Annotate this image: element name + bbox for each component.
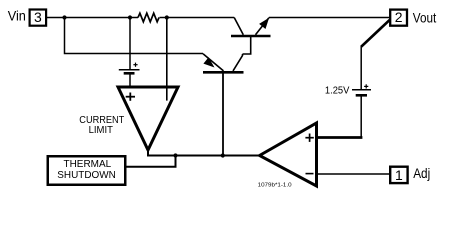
svg-text:SHUTDOWN: SHUTDOWN — [57, 170, 115, 181]
junction node D (thermal shutdown tie) — [173, 153, 177, 157]
wire: current limit output stub — [147, 149, 149, 157]
svg-text:3: 3 — [34, 9, 42, 25]
label CURRENT LIMIT — [79, 115, 124, 136]
wire: Q2 base down to output node bus — [222, 74, 224, 156]
svg-text:1: 1 — [395, 167, 403, 183]
transistor Q2 (PNP driver) — [203, 54, 244, 73]
battery B1 (offset cell) — [119, 63, 140, 74]
wire: down to battery B2 — [360, 46, 362, 90]
svg-text:Adj: Adj — [413, 166, 430, 181]
wire: battery B1 to current limit amp + input — [129, 74, 131, 88]
svg-text:1.25V: 1.25V — [325, 85, 350, 96]
wire: node C down to current limit amp - input (rotated minus) — [166, 18, 168, 101]
wire: op-amp - input to Adj pin — [317, 173, 390, 175]
wire: output rail from Q1 emitter to pin 2 — [269, 17, 389, 19]
battery B2 (1.25V reference) — [352, 84, 371, 95]
wire: node B down to battery B1 — [129, 18, 131, 70]
wire: Q1 base jog to Q2 collector — [243, 37, 251, 54]
wire: input rail from pin 3 to resistor — [47, 17, 138, 19]
wire: battery B2 down to op-amp + input — [360, 96, 362, 138]
wire: thermal shutdown output jog up to node D — [127, 157, 176, 167]
svg-text:Vout: Vout — [413, 11, 437, 26]
thermal shutdown block — [48, 156, 126, 185]
svg-text:THERMAL: THERMAL — [64, 159, 112, 170]
terminal box pin 3 (Vin) — [30, 9, 46, 26]
transistor Q1 (NPN pass) — [231, 18, 271, 37]
minus marker U2 — [306, 173, 314, 175]
svg-text:Vin: Vin — [8, 9, 26, 24]
wire: rail from resistor to Q1 collector — [160, 17, 235, 19]
wire: branch from node A down and right to Q2 emitter — [65, 18, 204, 54]
wire: drive node bus — [147, 155, 259, 157]
junction node E (Q2 base tie) — [221, 153, 225, 157]
plus marker U1 — [126, 93, 135, 101]
svg-text:1079b*1-1.0: 1079b*1-1.0 — [258, 183, 292, 189]
op-amp U1 (current limit comparator, pointing down) — [118, 87, 178, 150]
junction node C (resistor right end) — [165, 15, 169, 19]
junction node B (resistor left end) — [128, 15, 132, 19]
op-amp U2 (error amplifier, pointing left) — [260, 123, 317, 186]
resistor R1 (current sense) — [138, 13, 159, 22]
svg-text:LIMIT: LIMIT — [89, 125, 113, 136]
wire: diagonal from Vout rail to reference branch — [361, 20, 390, 47]
wire: op-amp + input (thick) — [316, 136, 363, 139]
terminal box pin 2 (Vout) — [390, 9, 407, 26]
terminal box pin 1 (Adj) — [390, 167, 407, 183]
plus marker U2 — [305, 134, 313, 142]
junction node A (Vin branch) — [62, 15, 66, 19]
svg-text:2: 2 — [395, 9, 403, 25]
